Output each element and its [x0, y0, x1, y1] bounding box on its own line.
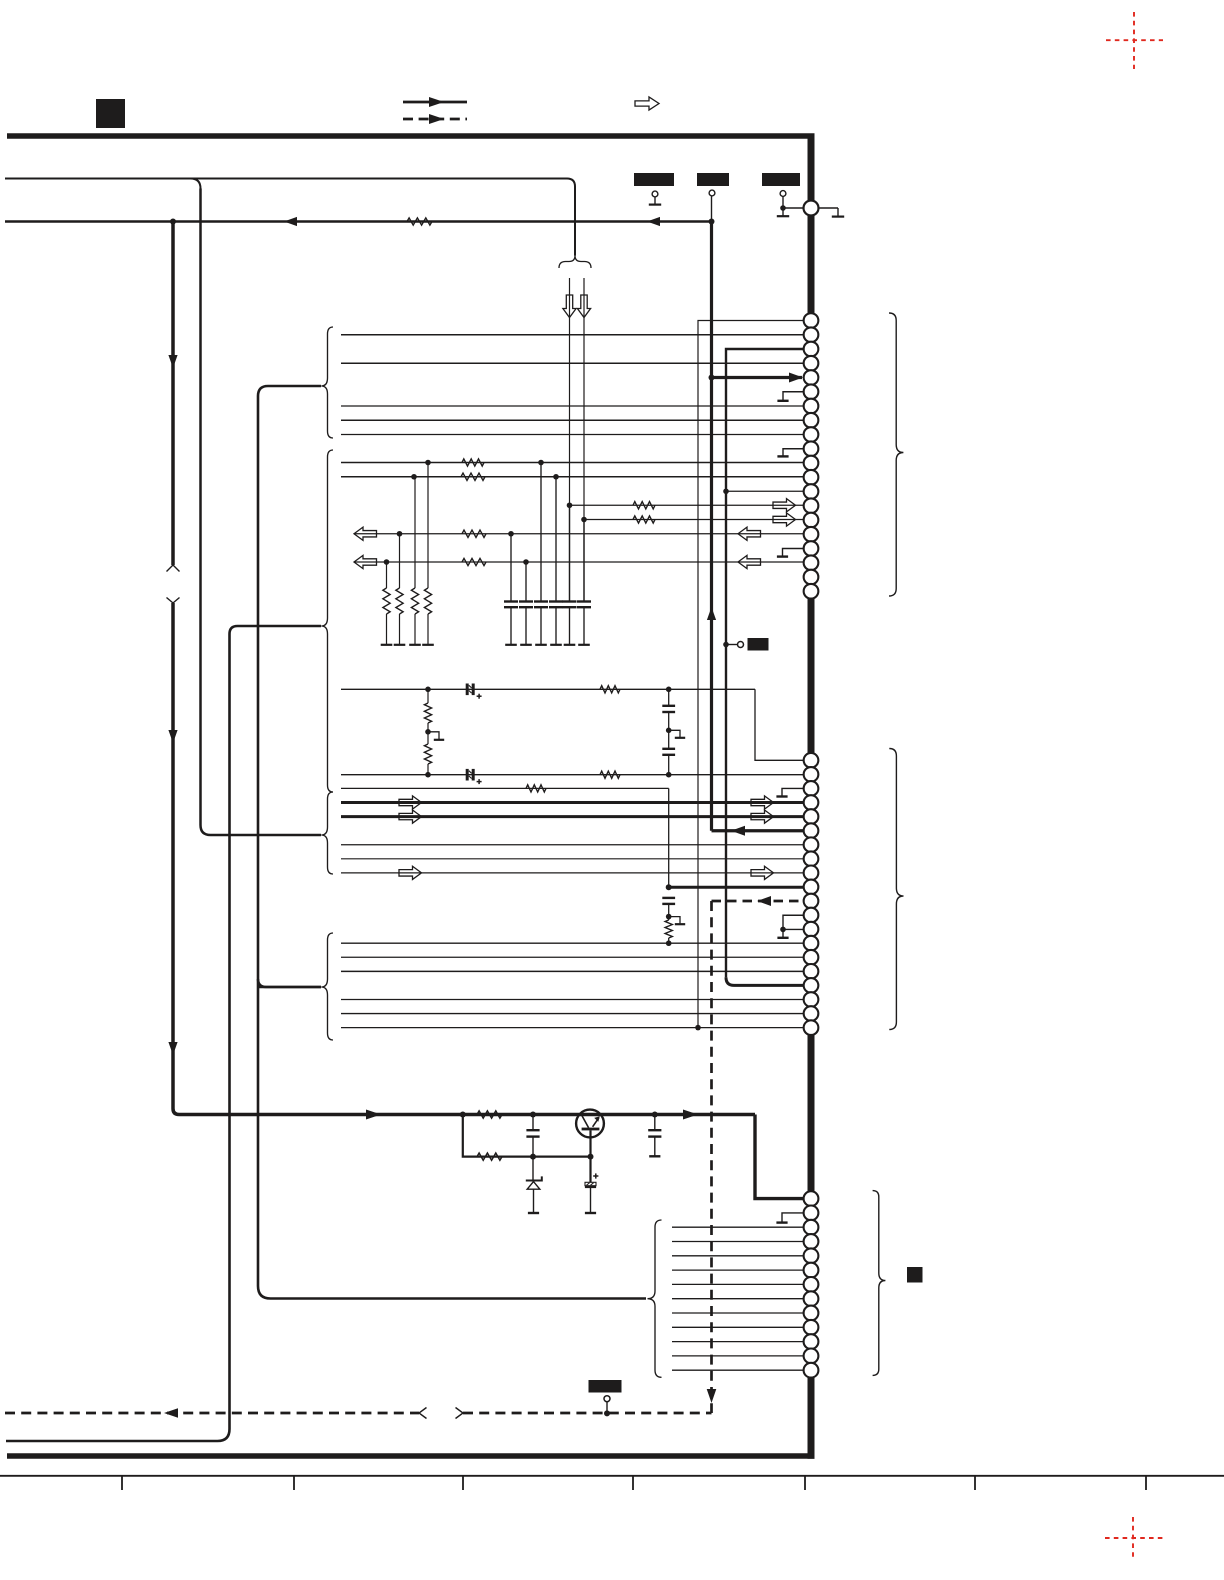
net wire y788	[341, 787, 669, 789]
bus wire to CN1 pin2	[341, 334, 804, 336]
resistor R16	[477, 1111, 502, 1118]
connector label block 2	[697, 173, 729, 186]
hollow arrow down A	[563, 295, 576, 318]
thick feed line lower	[173, 603, 179, 1115]
bus branch to brace D	[258, 979, 321, 987]
CN3 pin 8	[804, 1291, 819, 1306]
thick feed line upper	[171, 222, 175, 566]
hollow arrow right B pin9	[751, 866, 774, 879]
flow arrow down 2	[168, 730, 177, 743]
bus wire to CN1 pin8	[341, 419, 804, 421]
CN2 pin 10	[804, 880, 819, 895]
CN2 pin 20	[804, 1020, 819, 1035]
bus wire CN3 pin 13	[672, 1369, 804, 1371]
CN1 pin 2	[804, 327, 819, 342]
stub CN3 pin2	[782, 1213, 804, 1222]
resistor R15 vertical	[668, 917, 670, 920]
test point circle x740	[726, 644, 738, 646]
break chevron lower	[167, 598, 180, 604]
CN1 pin 14	[804, 498, 819, 513]
CN2 pin 2	[804, 767, 819, 782]
junction y774 x669	[666, 772, 672, 778]
wire CN1 pin11 net	[341, 462, 804, 464]
hollow arrow right pin14	[773, 499, 796, 512]
brace bus group 4	[321, 933, 333, 1040]
stub CN1 pin6	[783, 392, 804, 400]
CN3 pin 9	[804, 1306, 819, 1321]
thick wire CN2 pin6	[712, 829, 805, 832]
resistor R18	[462, 530, 486, 537]
capacitor C9	[668, 712, 670, 730]
branch CN1 pin13	[726, 490, 804, 492]
registration cross bottom right	[1105, 1537, 1164, 1539]
junction pin18 net A	[384, 559, 390, 565]
break chevron upper	[167, 565, 180, 572]
thick elbow CN2 pin17	[726, 977, 804, 985]
CN2 pin 12	[804, 908, 819, 923]
brace CN3 left	[648, 1220, 662, 1377]
CN3 pin 7	[804, 1277, 819, 1292]
bus wire CN2 pin20	[341, 1027, 804, 1029]
resistor R6 vertical	[386, 562, 388, 588]
resistor R4	[633, 502, 655, 509]
CN1 pin 9	[804, 427, 819, 442]
rail elbow to CN3 pin1	[755, 1115, 804, 1199]
junction base x533	[530, 1154, 536, 1160]
terminal circle 3	[780, 191, 786, 197]
brace CN3 right	[873, 1191, 886, 1376]
CN2 pin 9	[804, 866, 819, 881]
arrowhead left outer	[647, 217, 660, 226]
dashed wire CN2 pin11	[712, 900, 805, 903]
CN1 pin 10	[804, 441, 819, 456]
capacitor C5	[569, 505, 571, 601]
black index square legend	[96, 99, 125, 128]
board outline right edge	[808, 133, 815, 1459]
bus wire CN3 pin 8	[672, 1298, 804, 1300]
CN3 pin 2	[804, 1206, 819, 1221]
capacitor C2	[525, 562, 527, 602]
brace CN2 right	[889, 749, 903, 1030]
wire circle to dashed net	[606, 1402, 608, 1414]
resistor R14	[526, 785, 546, 792]
CN3 pin 12	[804, 1349, 819, 1364]
bus wire CN3 pin 10	[672, 1326, 804, 1328]
resistor R2	[462, 459, 484, 466]
junction y689 x428	[425, 687, 431, 693]
junction x669 mid	[666, 728, 672, 734]
CN2 pin 16	[804, 964, 819, 979]
transistor Q1	[576, 1110, 604, 1138]
bus thick wire CN2 pin5	[341, 815, 804, 818]
bus wire CN3 pin 4	[672, 1241, 804, 1243]
bus wire CN3 pin 3	[672, 1226, 804, 1228]
wire x669 chain	[668, 788, 670, 887]
CN2 pin 4	[804, 795, 819, 810]
capacitor C8	[668, 689, 670, 706]
legend solid signal-flow arrow	[403, 101, 467, 104]
junction node at x711	[709, 219, 715, 225]
ground stub 3	[782, 208, 784, 216]
CN1 pin 4	[804, 356, 819, 371]
CN2 pin 11	[804, 894, 819, 909]
stub x669 lower	[669, 917, 680, 924]
CN3 pin 13	[804, 1363, 819, 1378]
ground stub 1	[654, 197, 656, 204]
brace bus group 3	[321, 792, 333, 874]
CN1 pin 19	[804, 570, 819, 585]
test point label block	[748, 638, 769, 651]
bus wire CN2 pin7	[341, 844, 804, 846]
hollow arrow down B	[577, 295, 590, 318]
CN3 pin 6	[804, 1263, 819, 1278]
brace bus group 1	[321, 327, 333, 438]
bus wire to CN1 pin7	[341, 405, 804, 407]
capacitor C4	[555, 477, 557, 602]
hollow arrow right A pin9	[399, 866, 422, 879]
CN1 pin 17	[804, 541, 819, 556]
resistor R11 vertical	[427, 689, 429, 703]
resistor R3	[461, 473, 485, 480]
CN1 pin 1	[804, 313, 819, 328]
CN3 pin 5	[804, 1248, 819, 1263]
wire CN1 pin1 elbow	[698, 321, 804, 1028]
junction x698 bottom	[695, 1025, 701, 1031]
ground stub CN2 pin12-13	[783, 915, 804, 937]
capacitor C12	[532, 1115, 534, 1131]
CN2 pin 18	[804, 992, 819, 1007]
capacitor C10 polarized	[466, 769, 469, 781]
capacitor C1	[510, 534, 512, 602]
CN2 pin 1	[804, 753, 819, 768]
CN1 pin 12	[804, 470, 819, 485]
flow arrow down 3	[168, 1042, 177, 1055]
resistor R12 vertical	[427, 732, 429, 744]
junction rail x462	[460, 1112, 466, 1118]
wire branch fillet at x200	[191, 179, 201, 189]
CN1 pin 20	[804, 584, 819, 599]
stub CN2 pin3	[782, 788, 804, 795]
wire CN1 pin16 net	[354, 533, 804, 535]
junction y689 x669	[666, 687, 672, 693]
ruler ticks	[121, 1476, 123, 1490]
flow arrow up x711	[707, 607, 716, 620]
capacitor C7 polarized	[466, 684, 469, 696]
junction C6 top	[581, 517, 587, 523]
CN3 pin 3	[804, 1220, 819, 1235]
junction R2 left	[425, 460, 431, 466]
CN2 pin 6	[804, 823, 819, 838]
junction rail x655	[652, 1112, 658, 1118]
thick wire CN2 pin10	[669, 886, 804, 889]
dashed vertical x711	[710, 901, 713, 1413]
resistor R1 on y221	[407, 218, 432, 225]
resistor R13	[600, 771, 620, 778]
CN1 pin 15	[804, 513, 819, 528]
CN2 pin 19	[804, 1006, 819, 1021]
CN1 pin 7	[804, 399, 819, 414]
stub CN1 pin17	[783, 549, 805, 556]
wire cap to node	[668, 904, 670, 917]
bus wire CN3 pin 12	[672, 1355, 804, 1357]
dashed bottom wire left	[5, 1412, 419, 1415]
zener diode D1	[532, 1157, 534, 1181]
wire CN1 pin12 net	[341, 476, 804, 478]
bus wire CN3 pin 6	[672, 1269, 804, 1271]
terminal circle 1	[652, 191, 658, 197]
wire circle2 to bus	[711, 196, 713, 222]
brace bus group 2	[321, 450, 333, 792]
capacitor C13 polarized	[593, 1175, 598, 1177]
junction R3 right	[553, 474, 559, 480]
junction base x590	[588, 1154, 594, 1160]
bus wire CN2 pin14	[341, 942, 804, 944]
resistor R19	[462, 558, 486, 565]
board outline bottom edge	[7, 1453, 815, 1459]
CN3 pin 10	[804, 1320, 819, 1335]
junction x428 mid	[425, 729, 431, 735]
legend dashed signal-flow arrow	[403, 118, 467, 121]
CN2 pin 7	[804, 837, 819, 852]
hollow arrow left outer pin16	[354, 527, 377, 540]
legend hollow arrow	[635, 97, 659, 110]
wire corner to x575	[567, 179, 575, 256]
CN1 pin 8	[804, 413, 819, 428]
hollow arrow right A pin4	[399, 796, 422, 809]
resistor R17	[477, 1153, 502, 1160]
overbrace splitter	[559, 256, 591, 269]
registration cross top right	[1106, 39, 1163, 41]
CN2 pin 8	[804, 851, 819, 866]
junction node x783	[780, 205, 786, 211]
wire node to power circle	[783, 207, 804, 209]
CN1 pin 3	[804, 342, 819, 357]
black label square CN3	[907, 1267, 923, 1283]
terminal circle 2	[709, 190, 715, 196]
arrowhead left inner	[284, 217, 297, 226]
CN3 pin 1	[804, 1191, 819, 1206]
black label block bottom	[589, 1380, 622, 1393]
flow arrow down 1	[168, 355, 177, 368]
stub CN1 pin10	[783, 449, 804, 456]
hollow arrow right pin15	[773, 513, 796, 526]
wire vertical x200	[201, 189, 322, 836]
junction pin16 net A	[397, 531, 403, 537]
capacitor C6	[583, 520, 585, 602]
junction rail x533	[530, 1112, 536, 1118]
net wire y689	[341, 688, 755, 690]
CN1 pin 11	[804, 456, 819, 471]
bus wire CN2 pin16	[341, 970, 804, 972]
CN2 pin 13	[804, 922, 819, 937]
resistor R9 vertical	[427, 463, 429, 589]
wire CN1 pin14 net	[570, 504, 805, 506]
bus wire to brace B	[6, 626, 321, 1441]
thick branch to CN1 pin5	[712, 376, 803, 379]
CN1 pin 16	[804, 527, 819, 542]
capacitor C14	[654, 1115, 656, 1131]
junction x726 stub	[723, 642, 729, 648]
dashed bottom wire right	[463, 1412, 712, 1415]
wire to down-arrow A	[569, 278, 571, 601]
bus wire CN3 pin 11	[672, 1341, 804, 1343]
bus wire CN2 pin8	[341, 858, 804, 860]
CN1 pin 6	[804, 384, 819, 399]
junction R3 left	[411, 474, 417, 480]
wire CN1 pin15 net	[584, 519, 804, 521]
capacitor C11	[662, 897, 675, 899]
junction pin18 net B	[523, 559, 529, 565]
wire circle3 down	[782, 197, 784, 209]
CN2 pin 17	[804, 978, 819, 993]
net wire y774 to CN2 pin2	[341, 774, 804, 776]
junction chain pin14	[666, 940, 672, 946]
resistor R8 vertical	[414, 477, 416, 588]
wire CN1 pin18 net	[354, 561, 804, 563]
hollow arrow left inner pin16	[738, 527, 761, 540]
CN3 pin 11	[804, 1334, 819, 1349]
stub x428	[428, 732, 439, 739]
rail arrow 1	[366, 1110, 381, 1120]
hollow arrow right B pin5	[751, 810, 774, 823]
power entry circle	[804, 201, 819, 216]
bus wire CN3 pin 5	[672, 1255, 804, 1257]
ground bar right	[832, 216, 844, 218]
bus wire CN2 pin18	[341, 998, 804, 1000]
wire circle to ground	[819, 207, 839, 209]
flow arrow down dashed	[707, 1389, 717, 1403]
capacitor C3	[540, 463, 542, 602]
wire y689 elbow to CN2 pin1	[755, 689, 804, 760]
hollow arrow left outer pin18	[354, 555, 377, 568]
brace CN1 right	[889, 313, 903, 596]
junction dashed x607	[604, 1410, 610, 1416]
bus wire CN2 pin19	[341, 1013, 804, 1015]
connector label block 1	[634, 173, 674, 186]
junction node at x173	[170, 219, 176, 225]
CN2 pin 5	[804, 809, 819, 824]
junction R2 right	[538, 460, 544, 466]
bus wire CN2 pin15	[341, 956, 804, 958]
stub x669 upper	[669, 730, 680, 737]
junction x711 pin5	[709, 375, 715, 381]
thick net vertical x711	[710, 222, 713, 831]
base rail y1156	[463, 1115, 591, 1157]
board outline top edge	[7, 133, 808, 139]
bus wire to CN1 pin9	[341, 434, 804, 436]
resistor R7 vertical	[399, 534, 401, 588]
junction pin16 net B	[508, 531, 514, 537]
CN2 pin 15	[804, 950, 819, 965]
CN1 pin 18	[804, 555, 819, 570]
CN2 pin 3	[804, 781, 819, 796]
bus wire CN3 pin 9	[672, 1312, 804, 1314]
break chevron dash left	[419, 1408, 427, 1419]
wire bus line upper	[5, 178, 567, 180]
terminal circle bottom	[604, 1396, 610, 1402]
bus wire CN2 pin9	[341, 872, 804, 874]
CN1 pin 5	[804, 370, 819, 385]
junction x669 lower	[666, 914, 672, 920]
bus wire CN3 pin 7	[672, 1283, 804, 1285]
wire to down-arrow B	[583, 278, 585, 601]
bus wire brace A to brace E	[258, 386, 646, 1299]
signal wire with arrows y221	[5, 220, 712, 223]
junction C5 top	[567, 502, 573, 508]
CN3 pin 4	[804, 1234, 819, 1249]
connector label block 3	[762, 173, 800, 186]
bus thick wire CN2 pin4	[341, 801, 804, 804]
bus wire to CN1 pin4	[341, 362, 804, 364]
thick rail y1114	[179, 1113, 755, 1116]
resistor R5	[633, 516, 655, 523]
junction y774 x428	[425, 772, 431, 778]
break chevron dash right	[456, 1408, 464, 1419]
resistor R10	[600, 686, 620, 693]
wire CN1 pin3 elbow	[726, 349, 804, 977]
ruler base line	[0, 1475, 1224, 1477]
hollow arrow left inner pin18	[738, 555, 761, 568]
rail arrow 2	[683, 1110, 698, 1120]
hollow arrow right A pin5	[399, 810, 422, 823]
CN2 pin 14	[804, 936, 819, 951]
CN1 pin 13	[804, 484, 819, 499]
junction chain pin10	[666, 884, 672, 890]
hollow arrow right B pin4	[751, 796, 774, 809]
